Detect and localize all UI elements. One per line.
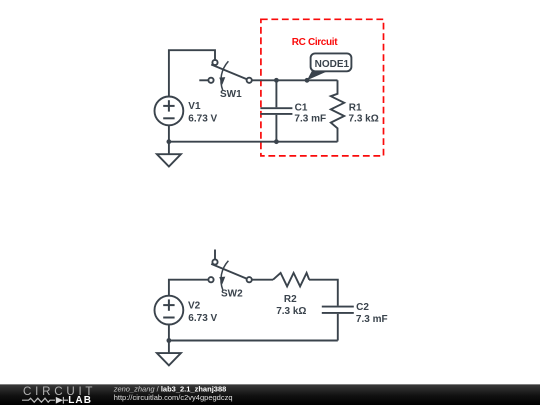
- svg-text:7.3 mF: 7.3 mF: [294, 114, 326, 125]
- svg-text:7.3 kΩ: 7.3 kΩ: [276, 306, 306, 317]
- svg-text:6.73 V: 6.73 V: [188, 313, 217, 324]
- svg-text:R2: R2: [284, 294, 297, 305]
- svg-text:SW1: SW1: [220, 89, 242, 100]
- svg-text:RC Circuit: RC Circuit: [292, 37, 338, 48]
- svg-text:LAB: LAB: [68, 395, 92, 405]
- svg-text:NODE1: NODE1: [315, 59, 350, 70]
- svg-text:6.73 V: 6.73 V: [188, 113, 217, 124]
- svg-text:R1: R1: [349, 102, 362, 113]
- svg-text:http://circuitlab.com/c2vy4gpe: http://circuitlab.com/c2vy4gpegdczq: [114, 393, 233, 402]
- svg-text:7.3 kΩ: 7.3 kΩ: [349, 114, 379, 125]
- svg-text:C2: C2: [356, 302, 369, 313]
- svg-text:C1: C1: [295, 102, 308, 113]
- svg-text:7.3 mF: 7.3 mF: [356, 314, 388, 325]
- svg-text:V2: V2: [188, 301, 201, 312]
- svg-text:V1: V1: [188, 101, 201, 112]
- svg-text:SW2: SW2: [221, 289, 243, 300]
